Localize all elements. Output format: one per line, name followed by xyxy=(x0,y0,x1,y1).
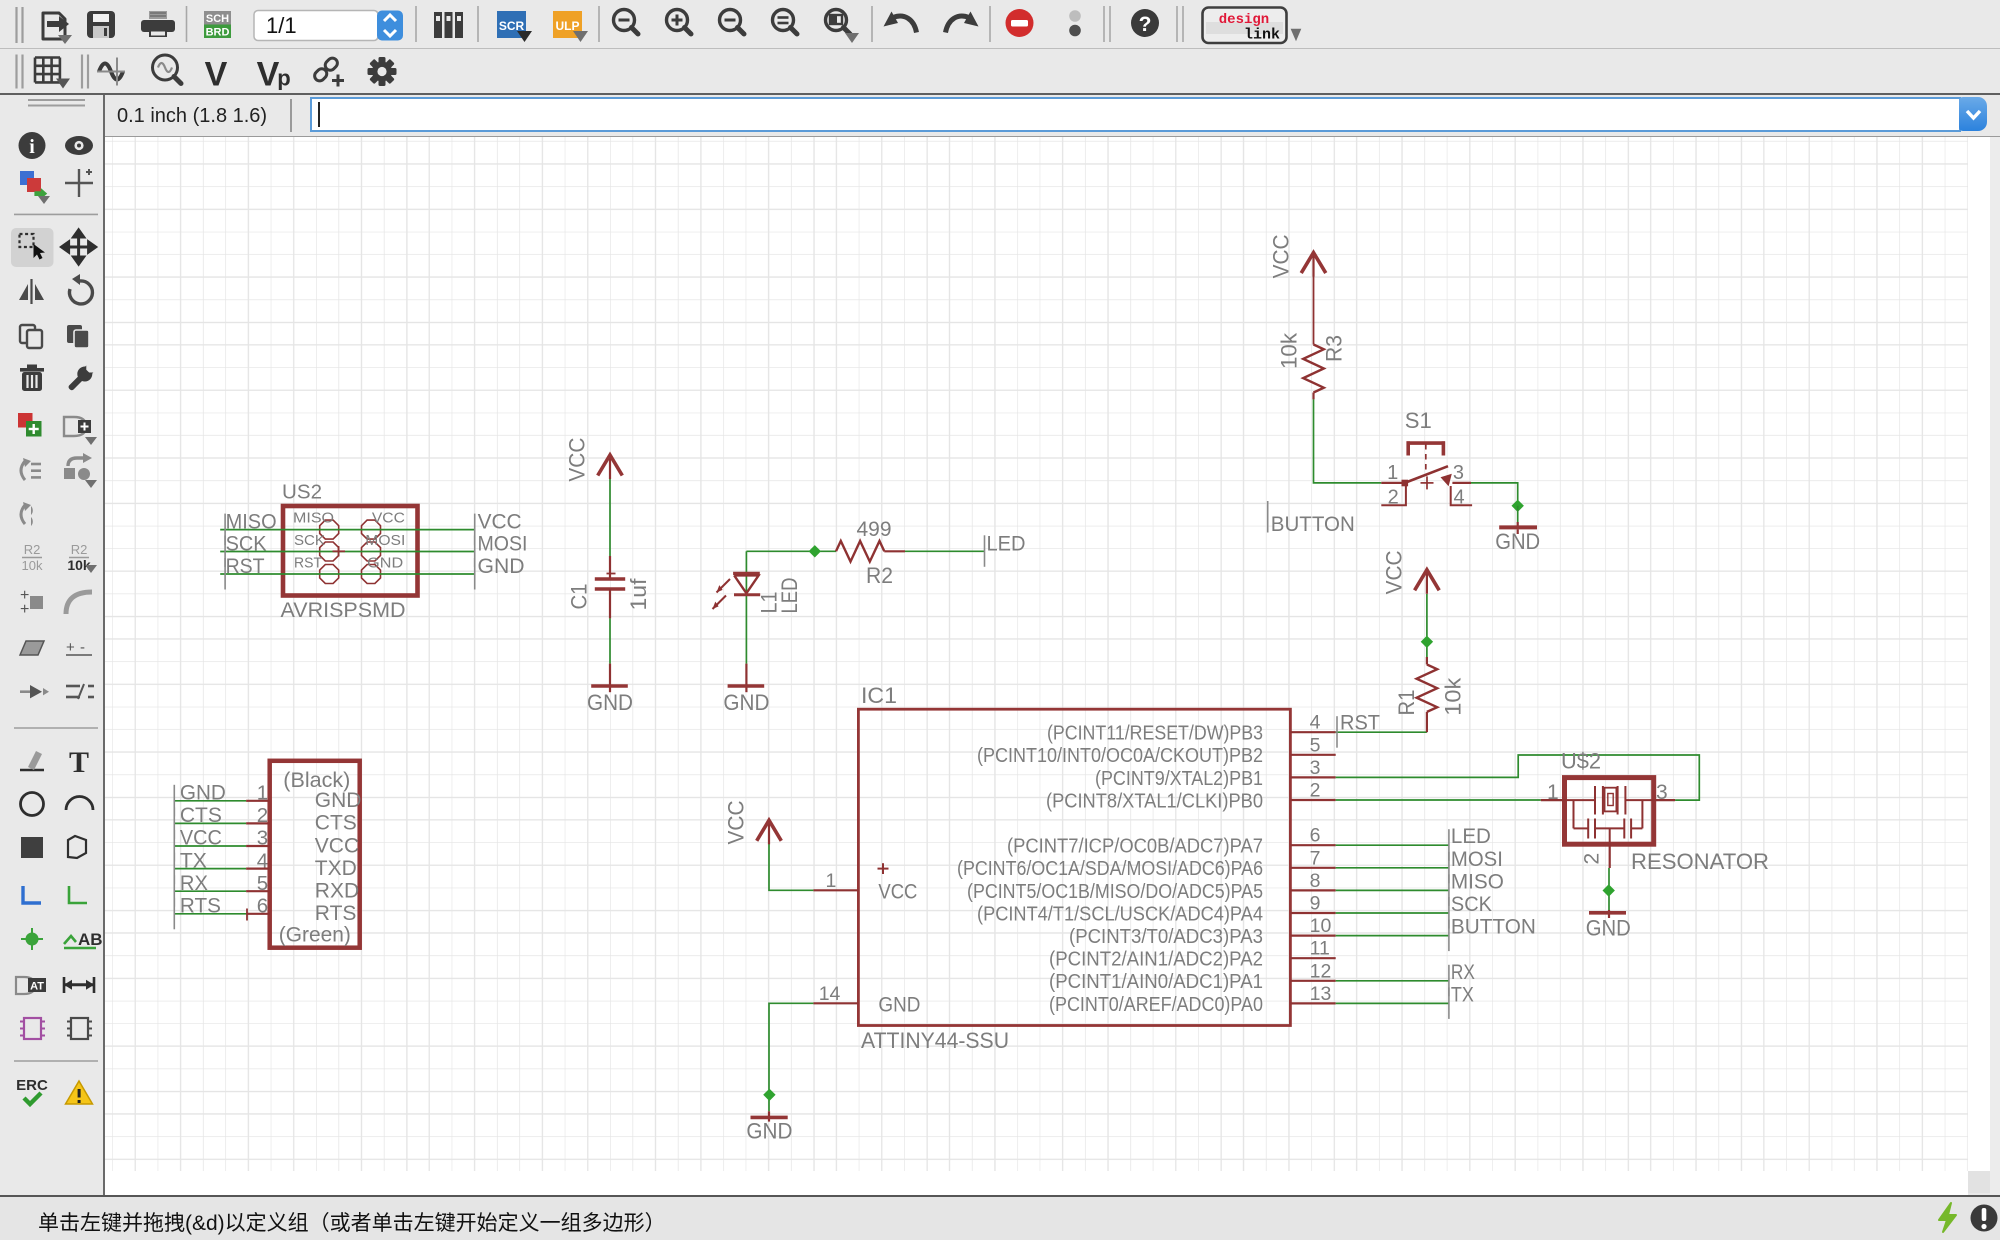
svg-text:2: 2 xyxy=(1581,853,1604,865)
value 10k (R3) xyxy=(1277,332,1302,369)
svg-text:MOSI: MOSI xyxy=(365,533,405,549)
svg-text:1: 1 xyxy=(1547,781,1559,804)
name U$2 xyxy=(1561,749,1601,774)
wire C1 to GND xyxy=(609,618,611,663)
value ATTINY44-SSU xyxy=(861,1028,1009,1053)
pin label GND (US2) xyxy=(367,556,403,572)
svg-text:4: 4 xyxy=(1310,712,1321,734)
wire RX (FTDI pin 5) xyxy=(175,890,247,892)
wire CTS (FTDI pin 2) xyxy=(175,822,247,824)
svg-text:VCC: VCC xyxy=(372,511,405,527)
resonator U$2 body xyxy=(1565,778,1654,845)
net label RST xyxy=(1337,712,1380,748)
wire MOSI stub (IC1) xyxy=(1336,867,1449,869)
svg-text:499: 499 xyxy=(857,518,892,541)
svg-text:ERC: ERC xyxy=(16,1077,48,1094)
net label VCC (FTDI) xyxy=(174,827,222,862)
svg-text:AVRISPSMD: AVRISPSMD xyxy=(281,599,406,622)
wire R3 to S1 xyxy=(1314,399,1382,483)
wire SCK row xyxy=(220,551,475,553)
svg-text:VCC: VCC xyxy=(878,880,917,903)
value RESONATOR xyxy=(1631,849,1769,874)
net label GND (right of US2) xyxy=(475,555,525,590)
svg-text:2: 2 xyxy=(1388,487,1399,509)
pin 11 PA2 (IC1) xyxy=(1049,938,1336,971)
svg-text:LED: LED xyxy=(1451,825,1491,848)
open-end cross on RTS pin xyxy=(246,909,248,921)
net label VCC (right of US2) xyxy=(475,511,522,545)
svg-text:2: 2 xyxy=(257,804,268,827)
value AVRISPSMD xyxy=(281,599,406,622)
svg-text:5: 5 xyxy=(257,872,268,895)
svg-text:SCH: SCH xyxy=(206,13,229,25)
name C1 xyxy=(567,584,592,610)
svg-text:RST: RST xyxy=(226,555,265,578)
value 499 xyxy=(857,518,892,541)
wire MISO stub (IC1) xyxy=(1336,889,1449,891)
wire GND (FTDI pin 1) xyxy=(175,800,247,802)
net label RX (FTDI) xyxy=(174,872,208,907)
svg-text:RX: RX xyxy=(180,872,208,895)
pin 5 PB2 (IC1) xyxy=(977,734,1336,767)
svg-text:(PCINT10/INT0/OC0A/CKOUT)PB2: (PCINT10/INT0/OC0A/CKOUT)PB2 xyxy=(977,745,1263,767)
value 10k (R1) xyxy=(1441,677,1466,716)
pin 2 (U$2) xyxy=(1581,844,1610,868)
svg-text:SCK: SCK xyxy=(226,533,267,556)
svg-text:5: 5 xyxy=(1310,734,1321,756)
net label RST (left) xyxy=(225,555,265,590)
svg-text:TXD: TXD xyxy=(315,857,357,880)
pin 3 VCC (FTDI) xyxy=(246,827,359,858)
power symbol VCC (above C1) xyxy=(565,437,623,481)
ground symbol GND (below IC1) xyxy=(746,1111,792,1143)
svg-text:6: 6 xyxy=(1310,825,1321,847)
svg-text:(PCINT3/T0/ADC3)PA3: (PCINT3/T0/ADC3)PA3 xyxy=(1069,926,1263,948)
resistor R1 xyxy=(1417,657,1438,732)
svg-text:-: - xyxy=(80,639,85,656)
ground symbol GND (below C1) xyxy=(587,664,633,715)
svg-text:VCC: VCC xyxy=(315,834,359,857)
name L1 xyxy=(757,592,782,614)
svg-text:IC1: IC1 xyxy=(861,683,897,708)
svg-text:BUTTON: BUTTON xyxy=(1271,513,1355,536)
pin 4 TXD (FTDI) xyxy=(246,849,357,880)
svg-text:TX: TX xyxy=(180,849,207,872)
net label MISO (left) xyxy=(225,511,277,545)
svg-text:LED: LED xyxy=(777,578,802,614)
name US2 xyxy=(282,482,322,504)
wire TX stub (IC1) xyxy=(1336,1002,1449,1004)
pin 1 VCC (IC1) xyxy=(813,863,917,903)
name S1 xyxy=(1405,408,1432,433)
pin label SCK (US2) xyxy=(294,533,325,549)
wire RST row xyxy=(220,573,475,575)
wire SCK stub (IC1) xyxy=(1336,912,1449,914)
svg-text:3: 3 xyxy=(257,827,268,850)
value 1uf xyxy=(626,578,651,611)
label (Green) xyxy=(279,924,351,947)
wire RTS (FTDI pin 6) xyxy=(175,913,247,915)
svg-text:S1: S1 xyxy=(1405,408,1432,433)
junction below IC1 xyxy=(763,1089,775,1101)
svg-text:VCC: VCC xyxy=(478,511,522,534)
svg-text:SCK: SCK xyxy=(294,533,325,549)
svg-text:(PCINT11/RESET/DW)PB3: (PCINT11/RESET/DW)PB3 xyxy=(1047,723,1263,745)
svg-text:US2: US2 xyxy=(282,482,322,504)
power symbol VCC (above R3) xyxy=(1269,234,1326,278)
svg-text:(PCINT6/OC1A/SDA/MOSI/ADC6)PA6: (PCINT6/OC1A/SDA/MOSI/ADC6)PA6 xyxy=(957,858,1263,880)
svg-text:C1: C1 xyxy=(567,584,592,610)
pin 10 PA3 (IC1) xyxy=(1069,915,1336,948)
net label GND (FTDI) xyxy=(174,782,226,817)
junction below resonator xyxy=(1603,884,1615,896)
svg-text:VCC: VCC xyxy=(1382,550,1407,594)
net label BUTTON (near S1) xyxy=(1268,501,1355,536)
svg-text:(PCINT1/AIN0/ADC1)PA1: (PCINT1/AIN0/ADC1)PA1 xyxy=(1049,971,1263,993)
svg-text:1: 1 xyxy=(257,782,268,805)
wire VCC to R3 xyxy=(1313,276,1315,345)
svg-text:1: 1 xyxy=(826,870,837,892)
wire BUTTON stub (IC1) xyxy=(1336,935,1449,937)
net label BUTTON xyxy=(1449,916,1536,952)
net label LED xyxy=(1449,825,1491,861)
svg-text:RST: RST xyxy=(294,556,322,572)
power symbol VCC (above R1) xyxy=(1382,550,1440,594)
svg-text:TX: TX xyxy=(1451,983,1474,1006)
svg-text:(PCINT4/T1/SCL/USCK/ADC4)PA4: (PCINT4/T1/SCL/USCK/ADC4)PA4 xyxy=(977,903,1263,925)
pin 3 PB1 (IC1) xyxy=(1095,757,1336,790)
svg-text:CTS: CTS xyxy=(315,812,357,835)
pin 4 PB3 (IC1) xyxy=(1047,712,1336,745)
pin 1 (U$2) xyxy=(1541,781,1565,804)
junction below S1 xyxy=(1512,500,1524,512)
svg-text:GND: GND xyxy=(746,1119,792,1144)
connector US2 AVRISPSMD body xyxy=(283,506,418,596)
wire LED node horizontal xyxy=(746,550,836,552)
pin 14 GND (IC1) xyxy=(813,983,920,1016)
pin 6 PA7 (IC1) xyxy=(1007,825,1336,858)
wire resonator to GND xyxy=(1608,868,1610,910)
resistor R2 xyxy=(836,541,905,562)
svg-text:R2: R2 xyxy=(24,542,41,557)
net label MOSI (right of US2) xyxy=(475,533,528,568)
svg-text:(Green): (Green) xyxy=(279,924,351,947)
svg-text:R1: R1 xyxy=(1394,690,1419,716)
label (Black) xyxy=(283,769,350,792)
name R3 xyxy=(1322,335,1347,362)
wire XTAL1 pin2 to resonator xyxy=(1336,799,1541,801)
net label LED (right of R2) xyxy=(985,532,1026,567)
wire XTAL2 pin3 to resonator xyxy=(1336,755,1700,800)
junction at R2 left xyxy=(809,545,821,557)
pin 1 GND (FTDI) xyxy=(246,782,361,813)
net label SCK (left) xyxy=(225,533,267,568)
svg-text:12: 12 xyxy=(1310,960,1332,982)
net label TX (FTDI) xyxy=(174,849,207,884)
svg-text:GND: GND xyxy=(1495,529,1540,554)
svg-text:14: 14 xyxy=(819,983,841,1005)
svg-text:MOSI: MOSI xyxy=(1451,848,1503,871)
svg-text:4: 4 xyxy=(1454,487,1465,509)
svg-text:8: 8 xyxy=(1310,870,1321,892)
svg-text:V: V xyxy=(205,56,228,94)
svg-text:GND: GND xyxy=(587,690,633,715)
wire RX stub (IC1) xyxy=(1336,980,1449,982)
wire VCC (FTDI pin 3) xyxy=(175,845,247,847)
name IC1 xyxy=(861,683,897,708)
schematic canvas xyxy=(174,234,1769,1143)
svg-text:1/1: 1/1 xyxy=(266,13,297,38)
ground symbol GND (below S1) xyxy=(1495,506,1540,554)
svg-text:1: 1 xyxy=(1387,462,1398,484)
svg-text:AT: AT xyxy=(30,981,44,993)
svg-text:10k: 10k xyxy=(22,558,43,573)
wire RST net (pin4 to R1) xyxy=(1336,731,1427,733)
pin label MOSI (US2) xyxy=(365,533,405,549)
wire LED anode vertical xyxy=(745,551,747,663)
net label SCK xyxy=(1449,893,1492,929)
svg-text:MOSI: MOSI xyxy=(478,533,528,556)
net label MOSI xyxy=(1449,848,1503,884)
svg-text:RESONATOR: RESONATOR xyxy=(1631,849,1769,874)
svg-text:GND: GND xyxy=(1586,916,1631,941)
svg-text:6: 6 xyxy=(257,895,268,918)
svg-text:GND: GND xyxy=(878,993,920,1016)
svg-text:RTS: RTS xyxy=(180,895,221,918)
pin 5 RXD (FTDI) xyxy=(246,872,359,903)
svg-text:GND: GND xyxy=(367,556,403,572)
pin numbers S1 xyxy=(1387,462,1465,508)
net label MISO xyxy=(1449,870,1504,906)
svg-text:RTS: RTS xyxy=(315,902,357,925)
svg-text:T: T xyxy=(69,746,89,779)
svg-text:4: 4 xyxy=(257,849,268,872)
svg-text:11: 11 xyxy=(1310,938,1330,960)
pin 9 PA4 (IC1) xyxy=(977,893,1336,926)
svg-text:MISO: MISO xyxy=(1451,870,1504,893)
svg-text:RXD: RXD xyxy=(315,880,359,903)
net label TX xyxy=(1449,983,1474,1019)
svg-text:ATTINY44-SSU: ATTINY44-SSU xyxy=(861,1028,1009,1053)
svg-text:R2: R2 xyxy=(866,563,893,588)
pin 12 PA1 (IC1) xyxy=(1049,960,1336,993)
svg-text:RX: RX xyxy=(1451,961,1475,984)
svg-text:R3: R3 xyxy=(1322,335,1347,362)
svg-text:SCR: SCR xyxy=(499,19,525,33)
name R2 xyxy=(866,563,893,588)
svg-text:(PCINT2/AIN1/ADC2)PA2: (PCINT2/AIN1/ADC2)PA2 xyxy=(1049,949,1263,971)
connector FTDI body xyxy=(270,761,360,948)
wire VCC to C1 xyxy=(609,479,611,556)
svg-text:MISO: MISO xyxy=(293,511,334,527)
pin 8 PA5 (IC1) xyxy=(967,870,1336,903)
net label RTS (FTDI) xyxy=(174,895,221,930)
open-end cross on SCK pin xyxy=(333,546,346,557)
wire MISO row xyxy=(220,529,475,531)
net label CTS (FTDI) xyxy=(174,804,222,839)
wire TX (FTDI pin 4) xyxy=(175,868,247,870)
svg-text:SCK: SCK xyxy=(1451,893,1492,916)
pin 3 (U$2) xyxy=(1654,781,1675,804)
svg-text:U$2: U$2 xyxy=(1561,749,1601,774)
svg-text:VCC: VCC xyxy=(180,827,222,850)
svg-text:R2: R2 xyxy=(71,542,88,557)
svg-text:BRD: BRD xyxy=(206,27,230,39)
svg-text:LED: LED xyxy=(987,532,1026,555)
svg-text:10k: 10k xyxy=(1277,332,1302,369)
pin 6 RTS (FTDI) xyxy=(246,895,356,926)
svg-text:MISO: MISO xyxy=(226,511,277,534)
pin label MISO (US2) xyxy=(293,511,334,527)
wire VCC to pin1 xyxy=(769,844,813,890)
junction above R1 xyxy=(1421,636,1433,648)
svg-text:3: 3 xyxy=(1453,462,1464,484)
pin 2 PB0 (IC1) xyxy=(1046,780,1336,813)
svg-text:10k: 10k xyxy=(1441,677,1466,716)
switch S1 BUTTON xyxy=(1381,441,1472,505)
net label RX xyxy=(1449,961,1475,997)
wire pin14 to GND xyxy=(769,1003,813,1111)
svg-text:link: link xyxy=(1244,27,1280,44)
svg-text:1uf: 1uf xyxy=(626,578,651,611)
pin 2 CTS (FTDI) xyxy=(246,804,357,835)
svg-text:CTS: CTS xyxy=(180,804,222,827)
svg-text:V: V xyxy=(257,56,280,94)
svg-text:+: + xyxy=(66,639,75,656)
svg-text:RST: RST xyxy=(1340,712,1380,735)
value LED (L1) xyxy=(777,578,802,614)
svg-text:3: 3 xyxy=(1656,781,1668,804)
svg-text:VCC: VCC xyxy=(724,800,749,844)
svg-text:p: p xyxy=(277,66,290,91)
svg-text:VCC: VCC xyxy=(1269,234,1294,278)
IC U1 IC1 ATTINY44-SSU body xyxy=(858,709,1290,1025)
capacitor C1 xyxy=(595,556,625,618)
svg-text:(PCINT0/AREF/ADC0)PA0: (PCINT0/AREF/ADC0)PA0 xyxy=(1049,994,1263,1016)
LED L1 xyxy=(713,573,761,609)
power symbol VCC (left of IC1) xyxy=(724,800,782,844)
wire R2 to LED net label xyxy=(905,550,985,552)
ground symbol GND (below resonator) xyxy=(1586,910,1631,941)
svg-text:(PCINT7/ICP/OC0B/ADC7)PA7: (PCINT7/ICP/OC0B/ADC7)PA7 xyxy=(1007,836,1263,858)
pin label VCC (US2) xyxy=(372,511,405,527)
svg-text:i: i xyxy=(29,136,35,158)
svg-text:(PCINT5/OC1B/MISO/DO/ADC5)PA5: (PCINT5/OC1B/MISO/DO/ADC5)PA5 xyxy=(967,881,1263,903)
svg-text:VCC: VCC xyxy=(565,437,590,481)
resistor R3 xyxy=(1303,345,1324,400)
svg-text:7: 7 xyxy=(1310,847,1321,869)
pin 7 PA6 (IC1) xyxy=(957,847,1336,880)
svg-text:(PCINT8/XTAL1/CLKI)PB0: (PCINT8/XTAL1/CLKI)PB0 xyxy=(1046,790,1263,812)
name R1 xyxy=(1394,690,1419,716)
svg-text:3: 3 xyxy=(1310,757,1321,779)
svg-text:+: + xyxy=(20,601,29,618)
svg-text:10: 10 xyxy=(1310,915,1332,937)
pin label RST (US2) xyxy=(294,556,322,572)
wire LED stub (IC1) xyxy=(1336,844,1449,846)
svg-text:GND: GND xyxy=(180,782,226,805)
svg-text:GND: GND xyxy=(315,789,362,812)
svg-text:13: 13 xyxy=(1310,983,1332,1005)
svg-text:(PCINT9/XTAL2)PB1: (PCINT9/XTAL2)PB1 xyxy=(1095,768,1263,790)
svg-text:AB: AB xyxy=(78,930,103,949)
wire S1 to GND xyxy=(1471,483,1518,506)
svg-text:GND: GND xyxy=(478,555,525,578)
ground symbol GND (below L1) xyxy=(723,664,769,715)
svg-text:2: 2 xyxy=(1310,780,1321,802)
svg-text:ULP: ULP xyxy=(556,19,580,33)
svg-text:?: ? xyxy=(1139,13,1152,36)
svg-text:GND: GND xyxy=(723,690,769,715)
wire VCC to R1 xyxy=(1426,594,1428,657)
svg-text:9: 9 xyxy=(1310,893,1321,915)
pin 13 PA0 (IC1) xyxy=(1049,983,1336,1016)
svg-text:BUTTON: BUTTON xyxy=(1451,916,1536,939)
